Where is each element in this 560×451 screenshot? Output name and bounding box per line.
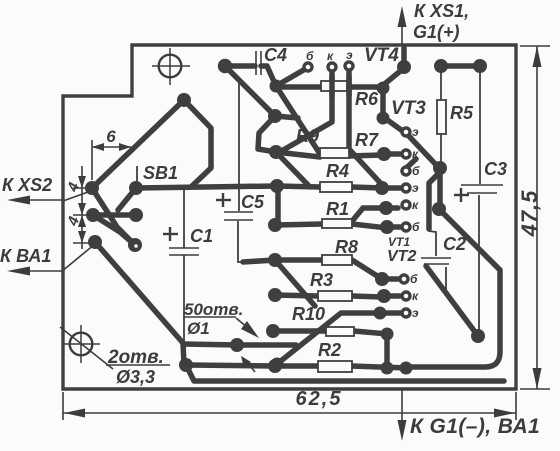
svg-text:C5: C5 [241, 192, 265, 212]
svg-text:R10: R10 [292, 304, 325, 324]
svg-text:б: б [412, 164, 420, 178]
svg-text:R8: R8 [335, 237, 358, 257]
svg-text:б: б [306, 49, 314, 63]
svg-text:C2: C2 [443, 234, 466, 254]
svg-text:R9: R9 [296, 126, 319, 146]
svg-text:Ø1: Ø1 [187, 319, 210, 338]
svg-text:VT2: VT2 [387, 248, 416, 265]
svg-text:э: э [412, 306, 419, 320]
svg-text:К ВА1: К ВА1 [0, 246, 51, 266]
svg-text:Ø3,3: Ø3,3 [116, 367, 155, 387]
svg-text:к: к [327, 49, 334, 63]
svg-text:50отв.: 50отв. [184, 300, 243, 319]
svg-text:C4: C4 [264, 45, 287, 65]
svg-text:R5: R5 [450, 103, 474, 123]
svg-text:R3: R3 [310, 270, 333, 290]
svg-text:6: 6 [106, 127, 116, 146]
svg-text:VT1: VT1 [388, 235, 410, 249]
svg-text:э: э [412, 125, 419, 139]
svg-text:R2: R2 [318, 340, 341, 360]
svg-text:2отв.: 2отв. [107, 347, 164, 368]
svg-text:C3: C3 [484, 159, 507, 179]
svg-text:к: к [412, 198, 419, 212]
svg-text:62,5: 62,5 [296, 388, 343, 410]
svg-text:К G1(–), ВА1: К G1(–), ВА1 [410, 415, 540, 438]
svg-text:SB1: SB1 [143, 163, 178, 183]
svg-text:к: к [412, 289, 419, 303]
svg-text:R4: R4 [326, 161, 349, 181]
svg-text:VT4: VT4 [364, 45, 399, 66]
svg-text:э: э [412, 181, 419, 195]
svg-text:R6: R6 [355, 89, 379, 109]
svg-text:б: б [412, 220, 420, 234]
svg-text:к: к [412, 147, 419, 161]
svg-text:б: б [410, 272, 418, 286]
svg-text:C1: C1 [190, 226, 213, 246]
svg-text:VT3: VT3 [391, 98, 426, 119]
svg-text:К XS2: К XS2 [2, 175, 52, 195]
svg-text:G1(+): G1(+) [413, 22, 460, 42]
svg-text:R7: R7 [355, 130, 379, 150]
svg-text:К XS1,: К XS1, [414, 1, 469, 21]
svg-text:R1: R1 [326, 199, 349, 219]
svg-text:э: э [346, 48, 353, 62]
svg-text:47,5: 47,5 [517, 190, 542, 238]
